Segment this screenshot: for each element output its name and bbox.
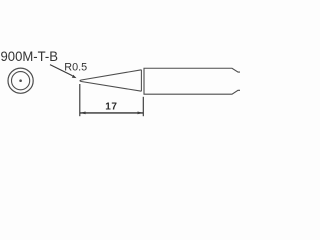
dimension arrowhead right <box>138 112 144 115</box>
leader line R0.5 <box>50 65 73 76</box>
dimension line 17 <box>80 112 144 114</box>
dimension extension line left <box>79 84 81 116</box>
cone (side view) with rounded tip <box>80 70 141 91</box>
tip end view: inner circle <box>12 72 30 90</box>
svg-text:17: 17 <box>105 102 117 113</box>
dimension arrowhead left <box>80 112 86 115</box>
svg-text:900M-T-B: 900M-T-B <box>1 48 59 64</box>
tip end view: center dot <box>19 79 22 82</box>
dimension extension line right <box>142 97 144 116</box>
leader arrowhead <box>72 75 77 78</box>
body (side view) with chamfered right end <box>144 68 240 94</box>
svg-text:R0.5: R0.5 <box>64 62 87 74</box>
tip end view: outer circle <box>8 68 33 93</box>
